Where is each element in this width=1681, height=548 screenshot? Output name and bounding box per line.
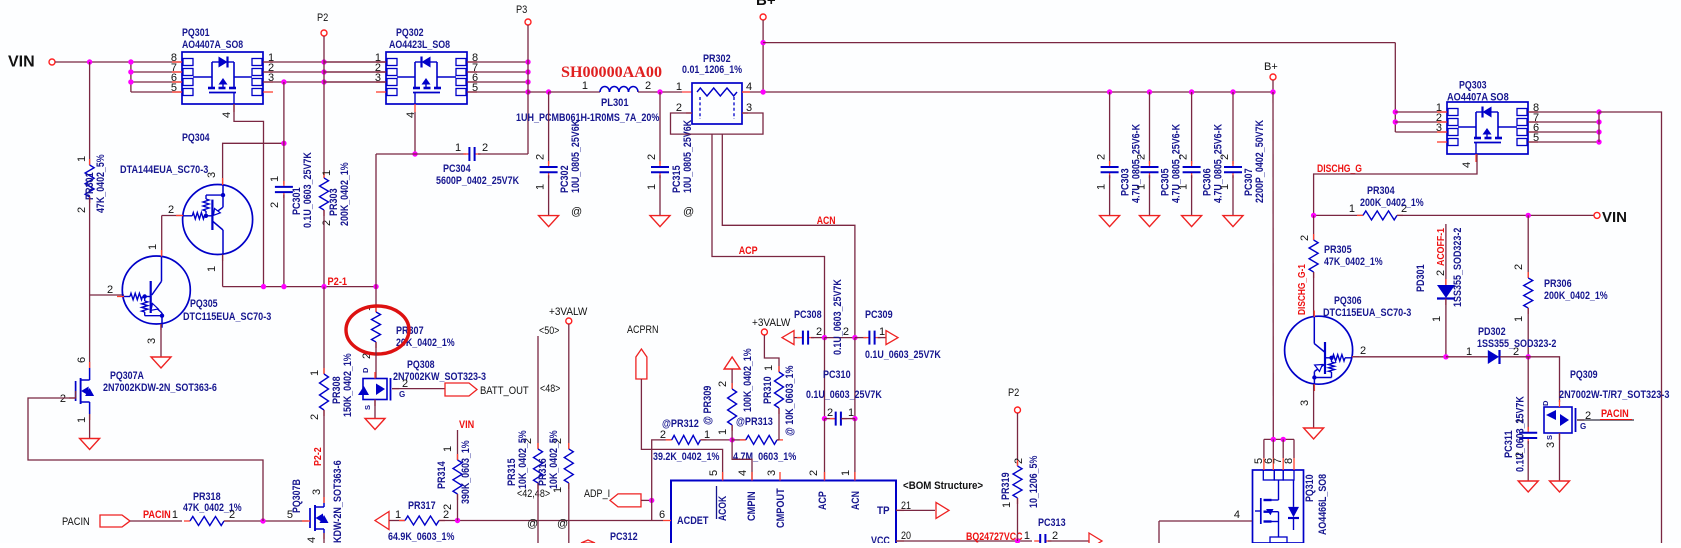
svg-text:2: 2 — [843, 326, 849, 338]
svg-text:0.1U_0603_25V7K: 0.1U_0603_25V7K — [302, 152, 314, 228]
resistor PR305 47K_0402_1% — [1313, 215, 1315, 240]
wire PC311 upper — [1527, 357, 1529, 430]
wire PC311 lower — [1527, 441, 1529, 481]
svg-text:3: 3 — [1299, 400, 1311, 406]
wire ACOFF-1 stub — [1445, 224, 1447, 285]
svg-text:2: 2 — [229, 509, 235, 521]
junction PR314 bottom — [455, 518, 460, 523]
svg-text:PQ310: PQ310 — [1304, 474, 1316, 502]
transistor PQ302 AO4423L_SO8 — [376, 52, 477, 112]
ground PC311 — [1518, 481, 1538, 492]
svg-text:2: 2 — [60, 393, 66, 405]
svg-text:ACP: ACP — [739, 245, 758, 257]
junction ACN row337 — [852, 335, 857, 340]
svg-text:PC312: PC312 — [610, 531, 638, 543]
wire PC315 lower — [659, 175, 661, 215]
wire VIN to PQ301 row8 — [55, 61, 182, 63]
svg-text:2: 2 — [1178, 154, 1190, 160]
svg-text:PR306: PR306 — [1544, 278, 1572, 290]
svg-text:2: 2 — [1096, 154, 1108, 160]
svg-text:ACPRN: ACPRN — [627, 324, 659, 336]
svg-text:PC310: PC310 — [823, 369, 851, 381]
svg-text:ACOK: ACOK — [717, 496, 729, 521]
svg-text:2: 2 — [535, 154, 547, 160]
svg-text:39.2K_0402_1%: 39.2K_0402_1% — [653, 451, 720, 463]
wire PQ304 base down to PQ305 — [161, 216, 163, 257]
svg-text:DTA144EUA_SC70-3: DTA144EUA_SC70-3 — [120, 164, 208, 176]
svg-text:3: 3 — [146, 338, 158, 344]
svg-text:2: 2 — [482, 142, 488, 154]
svg-text:200K_0402_1%: 200K_0402_1% — [1360, 197, 1424, 209]
diode PD302 1SS355_SOD323-2 — [1446, 356, 1488, 358]
wire PR307 to PQ308 drain — [375, 342, 377, 379]
svg-text:<42,48>: <42,48> — [517, 488, 550, 500]
wire PQ303 left rows — [1395, 111, 1447, 113]
port ADP_I — [610, 494, 641, 507]
svg-text:DISCHG_G-1: DISCHG_G-1 — [1296, 264, 1308, 315]
svg-text:PACIN: PACIN — [62, 516, 90, 528]
svg-text:1: 1 — [840, 470, 852, 476]
transistor PQ308 2N7002KW_SOT323-3 — [358, 378, 391, 401]
wire +3VALW to PR310 — [764, 335, 779, 372]
wire PR314 to row — [457, 494, 459, 521]
svg-text:PC313: PC313 — [1038, 517, 1066, 529]
transistor PQ307B KDW-2N_SOT363-6 — [310, 503, 329, 533]
capacitor PC306 4.7U_0805_25V6-K — [1189, 89, 1194, 94]
svg-text:+3VALW: +3VALW — [752, 317, 791, 329]
wire P2 col to PQ302 — [324, 61, 386, 63]
wire PQ303 out to right edge down — [1599, 112, 1662, 543]
wire PR310 to PR313 — [778, 408, 780, 440]
svg-text:P3: P3 — [516, 4, 527, 16]
svg-text:3: 3 — [311, 489, 323, 495]
wire junction column vertical — [130, 62, 132, 92]
svg-text:1: 1 — [676, 81, 682, 93]
port PACIN — [100, 515, 130, 527]
svg-text:20: 20 — [901, 530, 911, 542]
junction PC310 left — [822, 416, 827, 421]
svg-text:1: 1 — [269, 176, 281, 182]
power arrow PC312 partial — [581, 540, 595, 543]
svg-text:4.7U_0805_25V6-K: 4.7U_0805_25V6-K — [1131, 124, 1143, 203]
wire PQ303 pin4 DISCHG_G — [1314, 154, 1477, 215]
wire PQ307B source down — [323, 533, 325, 543]
wire row5 to PQ301 — [131, 91, 182, 93]
wire PR316 col lower — [568, 483, 570, 543]
terminal +3VALW mid — [761, 329, 767, 335]
junction PD301 bottom — [1443, 354, 1448, 359]
svg-text:2N7002W-T/R7_SOT323-3: 2N7002W-T/R7_SOT323-3 — [1559, 389, 1669, 401]
junction P3 col dots — [525, 59, 530, 64]
wire PC302 lower — [548, 175, 550, 215]
svg-text:P2-2: P2-2 — [312, 447, 324, 466]
resistor PR309 100K_0402_1% — [731, 383, 733, 389]
svg-text:1: 1 — [763, 365, 775, 371]
wire PQ301 pin4 path — [234, 104, 264, 287]
terminal P2 right — [1015, 407, 1021, 413]
svg-text:150K_0402_1%: 150K_0402_1% — [342, 353, 354, 417]
port PC309 right — [886, 331, 898, 345]
wire ACN col to PC309 — [855, 337, 867, 339]
svg-text:0.1U_0603_25V7K: 0.1U_0603_25V7K — [806, 389, 882, 401]
wire P2 to PR319 — [1017, 413, 1019, 466]
ground PQ309 — [1550, 481, 1570, 492]
svg-text:PC304: PC304 — [443, 163, 471, 175]
resistor PR313 4.7M_0603_1% — [732, 439, 746, 441]
wire PQ302 pin4 down — [414, 112, 416, 154]
svg-text:1: 1 — [535, 184, 547, 190]
svg-text:4.7U_0805_25V6-K: 4.7U_0805_25V6-K — [1213, 124, 1225, 203]
svg-text:PQ305: PQ305 — [190, 298, 218, 310]
wire PQ309 gate out PACIN — [1577, 419, 1634, 421]
wire ACN col to IC pin1 — [854, 419, 856, 481]
wire PQ303 right rows — [1528, 111, 1599, 113]
svg-text:@ 10K_0603_1%: @ 10K_0603_1% — [784, 365, 796, 436]
svg-text:AO4466L_SO8: AO4466L_SO8 — [1317, 474, 1329, 535]
svg-text:ACN: ACN — [817, 215, 836, 227]
svg-text:2200P_0402_50V7K: 2200P_0402_50V7K — [1254, 120, 1266, 203]
ground PC302 — [539, 216, 559, 227]
wire PC304 right to P3 col — [478, 153, 528, 155]
svg-text:AO4407A_SO8: AO4407A_SO8 — [182, 39, 243, 51]
transistor PQ309 2N7002W-T/R7_SOT323-3 — [1544, 407, 1576, 433]
wire ADP_I to node — [641, 499, 652, 501]
svg-text:PQ308: PQ308 — [407, 359, 435, 371]
svg-text:1: 1 — [1001, 502, 1013, 508]
svg-text:3: 3 — [1545, 442, 1557, 448]
svg-text:ACDET: ACDET — [677, 515, 709, 527]
junction PR306 tap — [1526, 213, 1531, 218]
svg-text:@ PR309: @ PR309 — [702, 386, 714, 425]
svg-text:PR314: PR314 — [436, 461, 448, 489]
wire PR301 to PQ305 base — [89, 197, 91, 295]
wire PC302 upper — [548, 92, 550, 164]
svg-text:1UH_PCMB061H-1R0MS_7A_20%: 1UH_PCMB061H-1R0MS_7A_20% — [516, 112, 660, 124]
wire PQ308 source to ground — [374, 400, 376, 419]
svg-text:2: 2 — [1299, 235, 1311, 241]
transistor PQ304 DTA144EUA_SC70-3 — [183, 185, 253, 255]
capacitor PC309 0.1U_0603_25V7K — [863, 337, 869, 339]
wire PD301 to PD302 row — [1445, 299, 1447, 357]
svg-text:PR304: PR304 — [1367, 185, 1395, 197]
svg-text:6: 6 — [76, 357, 88, 363]
svg-text:1: 1 — [147, 244, 159, 250]
svg-text:4: 4 — [1234, 509, 1240, 521]
junction P2 column rows — [321, 59, 326, 64]
resistor PR317 64.9K_0603_1% — [399, 520, 405, 522]
svg-text:2: 2 — [1219, 154, 1231, 160]
resistor PR302 0.01_1206_1% — [692, 83, 742, 124]
wire PQ307A source to ground — [89, 414, 91, 439]
capacitor PC308 0.1U_0603_25V7K — [797, 337, 803, 339]
svg-text:4: 4 — [1461, 162, 1473, 168]
svg-text:PL301: PL301 — [601, 97, 629, 109]
svg-text:1: 1 — [442, 446, 454, 452]
capacitor PC313 — [1034, 540, 1040, 542]
junction PQ303 right col — [1596, 109, 1601, 114]
junction DISCHG col — [1311, 213, 1316, 218]
svg-text:PQ306: PQ306 — [1334, 295, 1362, 307]
svg-text:1: 1 — [1096, 184, 1108, 190]
wire main row92 to caps — [763, 91, 1273, 93]
wire B+ col down to PQ310 — [1272, 92, 1274, 439]
port BATT_OUT — [445, 383, 477, 396]
svg-text:@: @ — [557, 518, 568, 530]
capacitor PC302 10U_0805_25V6K — [548, 161, 550, 167]
wire P2 vertical down to PR303 — [323, 36, 325, 178]
svg-text:AO4407A SO8: AO4407A SO8 — [1447, 92, 1509, 104]
wire PQ304 base from left — [162, 215, 183, 217]
junction PQ303 left dots — [1393, 109, 1398, 114]
svg-text:4.7M_0603_1%: 4.7M_0603_1% — [733, 451, 796, 463]
svg-text:ACOFF-1: ACOFF-1 — [1435, 228, 1447, 266]
svg-text:DTC115EUA_SC70-3: DTC115EUA_SC70-3 — [183, 311, 271, 323]
svg-text:0.1U_0603_25V7K: 0.1U_0603_25V7K — [1515, 396, 1527, 472]
svg-text:1: 1 — [582, 80, 588, 92]
port TP right — [936, 502, 949, 518]
svg-text:PC308: PC308 — [794, 309, 822, 321]
svg-text:TP: TP — [877, 505, 890, 517]
wire PC309 to port — [878, 337, 886, 339]
svg-text:1: 1 — [172, 509, 178, 521]
svg-text:47K_0402_1%: 47K_0402_1% — [1324, 256, 1383, 268]
svg-text:D: D — [1541, 400, 1550, 406]
svg-text:G: G — [399, 390, 405, 399]
svg-text:PQ304: PQ304 — [182, 132, 210, 144]
annotation red circle — [346, 306, 409, 354]
svg-text:2: 2 — [321, 220, 333, 226]
pin stubs PQ306 red — [1313, 311, 1315, 318]
wire PR309 to junction — [731, 425, 733, 440]
svg-text:CMPIN: CMPIN — [746, 491, 758, 521]
svg-text:1: 1 — [552, 487, 564, 493]
wire PR317 row — [389, 520, 405, 522]
svg-text:@: @ — [571, 206, 582, 218]
svg-text:2: 2 — [309, 414, 321, 420]
svg-text:64.9K_0603_1%: 64.9K_0603_1% — [388, 531, 455, 543]
junction PR319 bottom — [1015, 538, 1020, 543]
capacitor PC315 10U_0805_25V6K — [659, 161, 661, 167]
transistor PQ305 DTC115EUA_SC70-3 — [122, 256, 190, 324]
port ACPRN — [636, 349, 647, 379]
svg-text:SH00000AA00: SH00000AA00 — [561, 64, 662, 81]
pin stubs PQ307A red — [89, 362, 91, 368]
svg-text:5: 5 — [708, 470, 720, 476]
resistor PR316 10K_0402_5% — [568, 443, 570, 449]
junction PC310 right — [852, 416, 857, 421]
wire PR302 pin4 to B+ node — [742, 91, 763, 93]
resistor PR310 10K_0603_1% — [778, 366, 780, 372]
wire PR319 to VCC row — [1017, 498, 1019, 541]
svg-text:PR319: PR319 — [1000, 472, 1012, 500]
power arrow PR309 — [724, 357, 740, 369]
ground PQ307A — [80, 439, 100, 450]
pin stubs IC top red — [722, 472, 724, 481]
svg-text:PR305: PR305 — [1324, 244, 1352, 256]
svg-text:2: 2 — [1360, 345, 1366, 357]
svg-text:2: 2 — [168, 204, 174, 216]
diode PD301 1SS355_SOD323-2 — [1437, 285, 1455, 299]
wire PC304 row — [376, 153, 466, 155]
capacitor PC310 0.1U_0603_25V7K — [825, 418, 836, 420]
capacitor PC311 0.1U_0603_25V7K — [1527, 427, 1529, 433]
pin stubs PQ305 red — [117, 296, 124, 298]
svg-text:200K_0402_1%: 200K_0402_1% — [1544, 290, 1608, 302]
terminal +3VALW left — [566, 318, 572, 324]
resistor PR318 47K_0402_1% — [184, 520, 190, 522]
capacitor PC301 0.1U_0603_25V7K — [283, 181, 285, 187]
wire PQ304 emitter down to P2-1 — [222, 255, 224, 287]
svg-text:PQ307A: PQ307A — [110, 370, 144, 382]
resistor PR306 200K_0402_1% — [1527, 272, 1529, 278]
junction P2-1 dots — [261, 284, 266, 289]
wire PQ307A gate path — [28, 391, 263, 521]
wire PR303 to P2-1 row — [323, 210, 325, 287]
svg-text:<50>: <50> — [539, 325, 559, 337]
svg-text:CMPOUT: CMPOUT — [775, 488, 787, 528]
junction ACP row337 — [822, 335, 827, 340]
wire PQ310 pin4 — [1159, 520, 1252, 522]
svg-text:8: 8 — [1283, 458, 1295, 464]
wire PQ304 pin3 to PC301 node — [223, 143, 284, 185]
wire row92 to PR302 — [682, 91, 692, 93]
wire P3 vertical — [527, 25, 529, 154]
junction PR312/PR309/PR313 — [729, 437, 734, 442]
junction PC301 top — [281, 141, 286, 146]
wire net ACN path — [722, 134, 855, 338]
svg-text:D: D — [361, 367, 370, 373]
wire CMPIN from junction — [732, 440, 752, 481]
svg-text:2: 2 — [76, 207, 88, 213]
wire to PC308 — [794, 337, 800, 339]
svg-text:4: 4 — [306, 537, 318, 543]
svg-text:3: 3 — [206, 172, 218, 178]
wire PQ305 emitter to ground — [160, 324, 162, 357]
wire PR308 to PQ307B drain — [323, 410, 325, 503]
svg-text:PR317: PR317 — [408, 500, 436, 512]
capacitor PC303 4.7U_0805_25V6-K — [1107, 89, 1112, 94]
svg-text:PQ309: PQ309 — [1570, 369, 1598, 381]
capacitor PC305 4.7U_0805_25V6-K — [1147, 89, 1152, 94]
svg-text:+3VALW: +3VALW — [549, 306, 588, 318]
wire PD302 to PQ309 drain — [1528, 357, 1559, 402]
svg-text:AO4423L_SO8: AO4423L_SO8 — [389, 39, 450, 51]
junction B+ branch — [760, 40, 765, 45]
wire P2-1 to PR308 — [323, 287, 325, 374]
svg-text:S: S — [363, 405, 372, 410]
pin stubs PR302 red — [742, 91, 750, 93]
capacitor PC307 2200P_0402_50V7K — [1230, 89, 1235, 94]
wire PQ309 source to ground — [1559, 433, 1561, 481]
svg-text:2: 2 — [827, 407, 833, 419]
ground PQ305 — [151, 357, 171, 368]
svg-text:1: 1 — [1349, 203, 1355, 215]
svg-text:1: 1 — [1431, 316, 1443, 322]
svg-text:1: 1 — [1178, 184, 1190, 190]
svg-text:2: 2 — [269, 202, 281, 208]
svg-text:10U_0805_25V6K: 10U_0805_25V6K — [682, 120, 694, 193]
svg-text:PD302: PD302 — [1478, 326, 1506, 338]
wire PR312 left lead down — [652, 440, 672, 521]
svg-text:2: 2 — [1435, 270, 1447, 276]
svg-text:<48>: <48> — [540, 383, 560, 395]
svg-text:1: 1 — [879, 326, 885, 338]
svg-text:10_1206_5%: 10_1206_5% — [1028, 455, 1040, 508]
svg-text:1SS355_SOD323-2: 1SS355_SOD323-2 — [1477, 338, 1556, 350]
wire PR306 to PD302 row — [1527, 308, 1529, 357]
transistor PQ301 AO4407A_SO8 — [172, 52, 273, 112]
wire PR306 from VIN row — [1527, 215, 1529, 278]
svg-text:ACN: ACN — [850, 491, 862, 510]
svg-text:1: 1 — [395, 509, 401, 521]
wire PR313 right lead — [777, 439, 779, 441]
svg-text:PQ307B: PQ307B — [291, 479, 303, 513]
wire PQ306 collector pin2 right — [1353, 356, 1446, 358]
svg-text:1: 1 — [1466, 346, 1472, 358]
svg-text:2N7002KDW-2N_SOT363-6: 2N7002KDW-2N_SOT363-6 — [103, 382, 217, 394]
svg-text:5: 5 — [171, 82, 177, 94]
wire VIN junction down to PR301 — [89, 62, 91, 165]
svg-text:200K_0402_1%: 200K_0402_1% — [339, 162, 351, 226]
svg-text:G: G — [1580, 422, 1586, 431]
svg-text:21: 21 — [901, 500, 911, 512]
svg-text:ACP: ACP — [817, 491, 829, 510]
svg-text:1: 1 — [646, 184, 658, 190]
svg-text:1: 1 — [309, 370, 321, 376]
svg-text:100K_0402_1%: 100K_0402_1% — [742, 348, 754, 412]
wire PR317 to ACDET row — [439, 520, 663, 522]
svg-text:2: 2 — [808, 470, 820, 476]
svg-text:2: 2 — [1052, 530, 1058, 542]
svg-text:3: 3 — [766, 470, 778, 476]
junction PACIN node — [260, 518, 265, 523]
svg-text:1: 1 — [76, 417, 88, 423]
svg-text:1: 1 — [321, 170, 333, 176]
svg-text:2: 2 — [676, 102, 682, 114]
svg-text:B+: B+ — [756, 0, 776, 9]
junction col dots rows — [128, 59, 133, 64]
wire row92 P3col to PC302 — [528, 91, 549, 93]
pin stubs PD301 red — [1445, 279, 1447, 285]
svg-text:1: 1 — [206, 266, 218, 272]
wire rows PQ301 to PQ302 — [263, 61, 386, 63]
terminal VIN right — [1594, 212, 1600, 218]
svg-text:6: 6 — [659, 509, 665, 521]
capacitor PC304 5600P_0402_25V7K — [463, 153, 469, 155]
wire PC302 to PL301 — [549, 91, 600, 93]
wire PC315 upper — [659, 92, 661, 164]
svg-text:1: 1 — [1136, 184, 1148, 190]
wire P2-1 to PR307 — [375, 287, 377, 312]
wire PC308 to ACP col — [811, 337, 825, 339]
svg-text:PC309: PC309 — [865, 309, 893, 321]
svg-text:VIN: VIN — [1602, 209, 1627, 226]
svg-text:PC311: PC311 — [1503, 430, 1515, 458]
resistor PR312 39.2K_0402_1% — [666, 439, 672, 441]
svg-text:<BOM Structure>: <BOM Structure> — [903, 480, 983, 492]
svg-text:5600P_0402_25V7K: 5600P_0402_25V7K — [436, 175, 519, 187]
svg-text:@: @ — [527, 518, 538, 530]
svg-text:1: 1 — [76, 156, 88, 162]
terminal B+ top — [760, 14, 766, 20]
inductor PL301 1UH_PCMB061H-1R0MS_7A_20% — [600, 87, 638, 92]
svg-text:P2: P2 — [317, 12, 328, 24]
svg-text:@PR313: @PR313 — [736, 416, 773, 428]
svg-text:PACIN: PACIN — [1601, 408, 1629, 420]
resistor PR303 200K_0402_1% — [323, 172, 325, 178]
wire ACP col mid — [824, 338, 826, 419]
svg-text:0.1U_0603_25V7K: 0.1U_0603_25V7K — [865, 349, 941, 361]
